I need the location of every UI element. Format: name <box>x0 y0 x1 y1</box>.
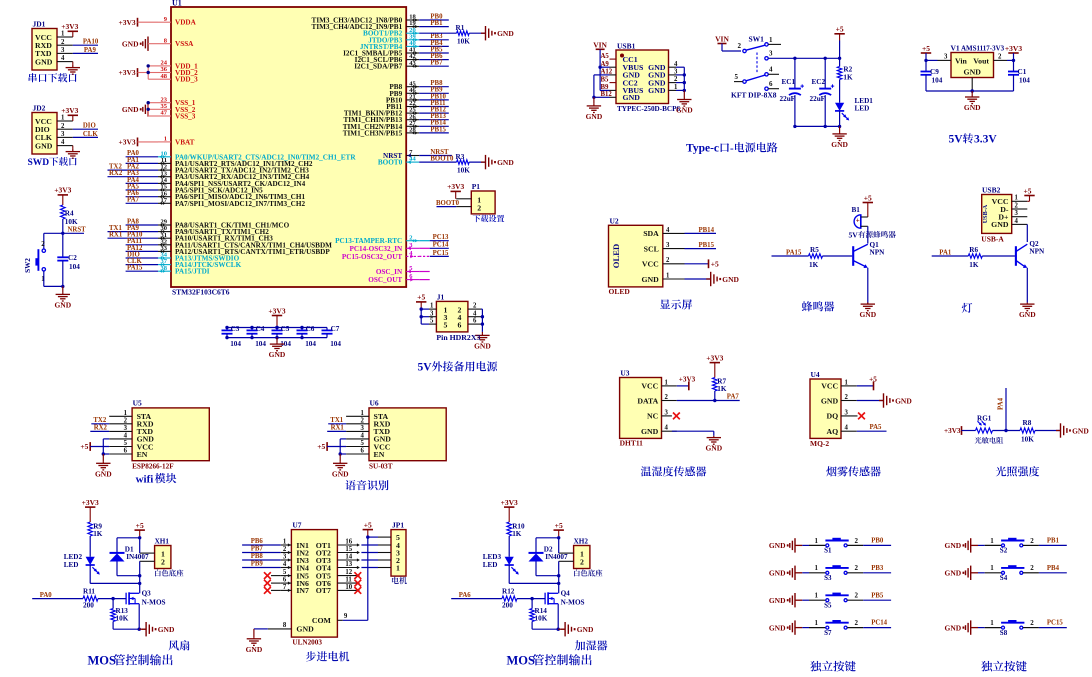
svg-text:+5: +5 <box>555 521 563 530</box>
svg-text:3: 3 <box>665 409 669 416</box>
svg-text:MOS: MOS <box>88 653 117 667</box>
svg-text:SCL: SCL <box>644 244 659 253</box>
svg-text:GND: GND <box>474 341 491 350</box>
U1 pin 29 PA8 <box>158 219 290 230</box>
svg-text:PA15: PA15 <box>786 249 802 256</box>
wire / net label CLK <box>126 258 158 265</box>
svg-text:B5: B5 <box>601 76 610 83</box>
svg-text:U3: U3 <box>620 369 629 378</box>
svg-text:C2: C2 <box>68 254 77 262</box>
svg-text:4: 4 <box>769 66 773 74</box>
wire / net label PA8 <box>126 218 158 225</box>
ground GND at J1 <box>474 309 491 350</box>
LED LED1 <box>835 80 873 127</box>
svg-text:2: 2 <box>1030 564 1034 572</box>
resistor R5 1K <box>809 246 853 269</box>
svg-text:47: 47 <box>161 110 168 117</box>
svg-text:GND: GND <box>1072 426 1089 435</box>
connector USB2 USB-A <box>981 186 1027 244</box>
key switch S4 / net PB4 <box>945 564 1067 582</box>
resistor R4 10K <box>61 205 78 226</box>
svg-text:3: 3 <box>361 425 365 432</box>
svg-text:IN7: IN7 <box>296 586 309 595</box>
svg-text:1: 1 <box>396 564 400 573</box>
svg-text:BOOT0: BOOT0 <box>378 159 403 167</box>
svg-text:NPN: NPN <box>870 249 886 257</box>
wire / net label DIO (JD2) <box>73 123 98 130</box>
resistor R12 200 <box>502 587 545 609</box>
svg-text:1: 1 <box>769 36 773 44</box>
ground GND at U7 pin8 <box>246 629 268 654</box>
capacitor C1 104 <box>1008 60 1030 91</box>
IC U1 STM32F103C6T6 body <box>171 0 406 297</box>
svg-text:1: 1 <box>124 410 128 417</box>
svg-text:VCC: VCC <box>641 382 658 391</box>
svg-text:V1: V1 <box>951 44 960 53</box>
svg-text:GND: GND <box>641 275 659 284</box>
svg-text:1K: 1K <box>843 73 853 81</box>
wire cap bank rails <box>225 326 327 340</box>
U1 pin 17 PA7 <box>158 197 305 208</box>
ground GND power circuit <box>831 126 848 148</box>
svg-text:COM: COM <box>312 616 332 625</box>
svg-text:2: 2 <box>1030 619 1034 627</box>
svg-text:PC15: PC15 <box>1047 620 1063 627</box>
caption 步进电机 <box>306 651 349 661</box>
key switch S1 / net PB0 <box>769 537 891 555</box>
svg-text:STM32F103C6T6: STM32F103C6T6 <box>172 288 230 297</box>
svg-text:EC2: EC2 <box>812 78 826 86</box>
wire GND+EN tie (U6) <box>339 439 347 456</box>
svg-text:GND: GND <box>296 625 314 634</box>
svg-text:DHT11: DHT11 <box>620 439 644 448</box>
wire USB2 GND to Q2 collector <box>1026 224 1028 242</box>
ground GND USB1 left <box>586 104 603 121</box>
wire / net label PB15 <box>419 126 449 133</box>
ground GND USB1 right <box>676 98 693 115</box>
wire / net label PB6 <box>419 53 449 60</box>
power +5 (U5) <box>80 442 109 451</box>
svg-text:NRST: NRST <box>68 227 87 234</box>
svg-text:GND: GND <box>676 106 693 115</box>
U1 pin 10 PA0 <box>158 150 356 161</box>
svg-text:1: 1 <box>283 539 287 546</box>
U1 pin 4 PC15-OSC32_OUT <box>342 250 419 261</box>
U1 pin 5 OSC_IN <box>376 265 430 276</box>
wire / net label PA15 <box>126 265 158 272</box>
capacitor C6 104 <box>297 325 317 348</box>
svg-text:R5: R5 <box>810 246 819 254</box>
svg-text:4: 4 <box>61 139 65 146</box>
svg-text:PB6: PB6 <box>251 538 264 545</box>
svg-text:2: 2 <box>665 394 669 401</box>
svg-text:4: 4 <box>665 425 669 432</box>
caption MOS管控制输出 <box>507 653 592 667</box>
svg-text:1: 1 <box>815 564 819 572</box>
U1 pin 37 PA14 <box>158 258 242 269</box>
svg-text:+3V3: +3V3 <box>118 18 135 27</box>
power VIN at SW1 <box>715 35 741 52</box>
svg-text:IN4007: IN4007 <box>126 553 149 561</box>
svg-text:ESP8266-12F: ESP8266-12F <box>132 463 174 471</box>
svg-text:+5: +5 <box>417 293 425 302</box>
U1 pin 23 VSS_1 <box>158 96 196 107</box>
LED LED3 <box>483 536 561 585</box>
transistor Q2 NPN <box>1016 240 1045 268</box>
caption 蜂鸣器 <box>802 301 834 311</box>
caption 5V外接备用电源 <box>418 361 498 373</box>
wire to switch SW2 <box>44 233 63 249</box>
power +3V3 at R7 <box>706 353 723 377</box>
svg-text:2: 2 <box>1015 202 1019 209</box>
ground GND DHT11 <box>705 436 722 453</box>
svg-text:48: 48 <box>161 73 168 80</box>
wire node to R8 <box>993 429 1021 432</box>
svg-text:CLK: CLK <box>83 131 98 138</box>
ground GND lamp <box>1019 303 1036 320</box>
svg-text:I2C1_SDA/PB7: I2C1_SDA/PB7 <box>354 63 402 71</box>
svg-text:+3V3: +3V3 <box>54 186 71 195</box>
svg-text:3: 3 <box>430 310 434 317</box>
wire / net label PB14 (OLED SDA) <box>685 227 717 234</box>
svg-text:3: 3 <box>1015 210 1019 217</box>
wire USB1 right bus to ground <box>676 67 686 97</box>
capacitor C3 104 <box>222 325 242 348</box>
U1 pin 45 PB8 <box>389 80 419 91</box>
svg-text:104: 104 <box>230 340 241 348</box>
svg-text:PA0: PA0 <box>40 592 53 599</box>
wire / net label PC14 <box>419 242 449 249</box>
key switch S2 / net PB1 <box>945 537 1067 555</box>
U1 pin 39 JTDO/PB3 <box>368 33 419 44</box>
svg-text:VCC: VCC <box>642 260 659 269</box>
power VIN at USB1 <box>593 40 609 90</box>
svg-text:7: 7 <box>283 584 287 591</box>
connector USB1 TYPE-C-250D-BCP6 <box>601 41 681 113</box>
svg-text:R2: R2 <box>843 65 852 73</box>
wire / net label PB15 (OLED SCL) <box>685 242 717 249</box>
resistor R1 10K with ground on PB2 <box>419 24 514 45</box>
svg-text:1K: 1K <box>93 530 103 538</box>
svg-text:USB1: USB1 <box>617 41 636 50</box>
resistor R14 10K <box>530 599 558 630</box>
no-connect X at MQ-2 DQ <box>858 413 865 420</box>
svg-text:S3: S3 <box>824 574 832 582</box>
wire / net label PA4 <box>126 177 158 184</box>
svg-text:8: 8 <box>283 622 287 629</box>
svg-text:10K: 10K <box>457 38 470 46</box>
U1 pin 34 PA13 <box>158 252 240 263</box>
resistor R9 1K <box>88 522 103 538</box>
svg-text:PA10: PA10 <box>83 39 99 46</box>
wire / net label RX2 <box>90 425 109 432</box>
svg-text:VIN: VIN <box>593 40 607 49</box>
svg-text:10K: 10K <box>116 615 129 623</box>
svg-text:3: 3 <box>666 242 670 249</box>
power +5 at U7/JP1 <box>363 520 378 538</box>
U1 pin 25 TIM1_BKIN/PB12 <box>344 107 419 118</box>
svg-text:1: 1 <box>430 303 434 310</box>
ground GND at VSSA <box>122 37 158 51</box>
svg-text:3: 3 <box>283 554 287 561</box>
svg-text:PB4: PB4 <box>1047 565 1060 572</box>
svg-text:EN: EN <box>137 450 148 459</box>
resistor R3 10K with ground on BOOT0 <box>419 153 514 174</box>
U1 pin 36 VDD_2 <box>158 66 198 77</box>
svg-text:10: 10 <box>345 584 352 591</box>
svg-text:GND: GND <box>945 541 962 550</box>
wire / net label PB3 <box>419 33 449 40</box>
resistor R7 1K pullup <box>713 377 727 402</box>
caption Type-c口-电源电路 <box>686 142 777 154</box>
U1 pin 30 PA9 <box>158 225 269 236</box>
caption 下载设置 <box>473 215 505 222</box>
svg-text:C5: C5 <box>281 325 290 333</box>
power +3V3 reset circuit <box>54 186 71 205</box>
svg-text:S1: S1 <box>824 547 832 555</box>
wire / net label PA4 vertical <box>998 388 1007 431</box>
power +3V3 at VBAT <box>118 138 158 147</box>
svg-text:2: 2 <box>283 546 287 553</box>
svg-text:GND: GND <box>641 427 659 436</box>
svg-text:GND: GND <box>497 29 514 38</box>
svg-text:4: 4 <box>361 433 365 440</box>
power +5 at USB2 <box>1023 186 1034 201</box>
svg-text:2: 2 <box>666 257 670 264</box>
U1 pin 8 VSSA <box>158 37 194 48</box>
svg-text:SWD: SWD <box>28 158 50 168</box>
svg-text:2: 2 <box>580 557 584 566</box>
caption 5V转3.3V <box>949 133 998 145</box>
svg-text:+5: +5 <box>711 259 719 268</box>
U1 pin 14 PA4 <box>158 177 306 188</box>
svg-text:GND: GND <box>859 310 876 319</box>
svg-text:6: 6 <box>361 448 365 455</box>
U1 pin 26 TIM1_CHIN/PB13 <box>343 113 419 124</box>
U1 pin 31 PA10 <box>158 232 273 243</box>
no-connect X at U7 output <box>354 580 361 587</box>
wire / net label PA10 RX1 <box>108 232 159 239</box>
svg-text:R8: R8 <box>1023 419 1032 427</box>
caption 灯 <box>962 303 972 313</box>
wire / net label PB12 <box>419 107 449 114</box>
svg-text:+5: +5 <box>80 442 88 451</box>
svg-text:2: 2 <box>845 394 849 401</box>
U1 pin 42 I2C1_SCL/PB6 <box>355 53 420 64</box>
svg-text:+3V3: +3V3 <box>268 306 285 315</box>
svg-text:GND: GND <box>722 275 739 284</box>
no-connect X at U7 output <box>354 587 361 594</box>
svg-text:wifi: wifi <box>136 473 154 485</box>
svg-text:RG1: RG1 <box>977 414 992 422</box>
wire U7 output to JP1 <box>361 552 378 554</box>
svg-text:R12: R12 <box>502 587 515 595</box>
svg-text:6: 6 <box>473 318 477 325</box>
svg-text:6: 6 <box>124 448 128 455</box>
svg-text:10K: 10K <box>1021 435 1034 443</box>
wire / net label PA7 (DHT11 DATA) <box>677 393 740 400</box>
svg-text:U4: U4 <box>811 370 820 379</box>
wire / net label PA2 TX2 <box>108 164 159 171</box>
svg-text:C4: C4 <box>256 325 265 333</box>
svg-text:GND: GND <box>35 57 53 66</box>
wire GND+EN tie (U5) <box>102 439 110 456</box>
svg-text:5: 5 <box>430 318 434 325</box>
wire / net label PA15 (buzzer) <box>772 249 809 256</box>
svg-text:Type-c: Type-c <box>686 143 719 155</box>
svg-text:JD2: JD2 <box>33 104 46 113</box>
svg-text:PA9: PA9 <box>84 47 97 54</box>
no-connect X at DHT11 NC <box>673 413 680 420</box>
wire drain (Q3) <box>139 576 141 594</box>
transistor Q3 N-MOS <box>126 590 165 607</box>
caption 串口下载口 <box>29 73 77 82</box>
ground GND (U5) <box>95 454 112 478</box>
svg-text:PB9: PB9 <box>251 561 264 568</box>
svg-text:PB8: PB8 <box>251 553 264 560</box>
resistor R11 200 <box>83 587 126 609</box>
wire / net label PB0 <box>419 13 449 20</box>
U1 pin 24 VDD_1 <box>158 60 198 71</box>
caption wifi模块 <box>136 473 177 485</box>
svg-text:+3V3: +3V3 <box>1005 44 1022 53</box>
wire / net label PB9 <box>419 87 449 94</box>
wire / net label PB7 (U7 IN2) <box>242 546 281 553</box>
svg-text:GND: GND <box>158 625 175 634</box>
svg-text:4: 4 <box>283 561 287 568</box>
U1 pin 3 PC14-OSC32_IN <box>349 242 419 253</box>
svg-text:NC: NC <box>647 412 659 421</box>
svg-text:GND: GND <box>623 93 641 102</box>
svg-text:BOOT0: BOOT0 <box>430 156 454 163</box>
svg-text:PC14-OSC32_IN: PC14-OSC32_IN <box>349 245 403 253</box>
svg-text:+5: +5 <box>922 44 930 53</box>
svg-text:1: 1 <box>990 564 994 572</box>
svg-text:1: 1 <box>815 619 819 627</box>
no-connect X at U7 output <box>354 572 361 579</box>
svg-text:5: 5 <box>283 569 287 576</box>
wire / net label PC13 <box>419 234 449 241</box>
svg-text:104: 104 <box>330 340 341 348</box>
svg-text:GND: GND <box>769 541 786 550</box>
power +3V3 (R10) <box>501 498 518 522</box>
svg-text:TIM1_CH3N/PB15: TIM1_CH3N/PB15 <box>343 129 403 137</box>
power +3V3 light sensor <box>944 426 975 435</box>
svg-text:N-MOS: N-MOS <box>142 599 166 607</box>
svg-text:GND: GND <box>769 623 786 632</box>
caption 独立按键 left <box>810 661 856 672</box>
diode D2 IN4007 <box>529 538 568 578</box>
svg-text:104: 104 <box>305 340 316 348</box>
wire / net label PA11 <box>126 238 158 245</box>
power +5 at J1 <box>416 293 429 324</box>
svg-text:RX2: RX2 <box>109 170 123 177</box>
U1 pin 13 PA3 <box>158 170 310 181</box>
svg-text:PC14: PC14 <box>871 620 887 627</box>
wire source to ground (Q4) <box>557 604 566 631</box>
IC U6 SU-03T <box>346 399 446 471</box>
svg-text:13: 13 <box>345 561 352 568</box>
svg-text:1K: 1K <box>809 261 819 269</box>
label 5V有源蜂鸣器 <box>849 230 896 239</box>
wire bottom rail power circuit <box>793 125 841 128</box>
diode D1 IN4007 <box>110 538 149 578</box>
svg-text:A5: A5 <box>601 53 610 60</box>
svg-text:OLED: OLED <box>611 244 621 268</box>
svg-text:N-MOS: N-MOS <box>561 599 585 607</box>
svg-text:PB15: PB15 <box>430 126 446 133</box>
svg-text:22uF: 22uF <box>810 95 826 103</box>
key switch S7 / net PC14 <box>769 619 891 637</box>
svg-text:C6: C6 <box>306 325 315 333</box>
wire / net label NRST <box>419 149 452 156</box>
U1 pin 33 PA12 <box>158 245 330 256</box>
svg-text:+3V3: +3V3 <box>118 68 135 77</box>
svg-text:1K: 1K <box>969 261 979 269</box>
power +5 (U6) <box>317 442 346 451</box>
svg-text:2: 2 <box>738 42 742 50</box>
capacitor C4 104 <box>247 325 267 348</box>
svg-text:2: 2 <box>409 234 412 241</box>
svg-text:Vout: Vout <box>973 57 989 66</box>
svg-text:VSS_3: VSS_3 <box>175 113 196 121</box>
svg-text:4: 4 <box>473 310 477 317</box>
wire / net label PA1 <box>126 157 158 164</box>
svg-text:3: 3 <box>124 425 128 432</box>
svg-text:R3: R3 <box>456 153 465 161</box>
key switch S5 / net PB5 <box>769 592 891 610</box>
key switch S8 / net PC15 <box>945 619 1067 637</box>
wire / net label PA10 (JD1) <box>73 39 99 46</box>
U1 pin 28 TIM1_CH3N/PB15 <box>343 127 420 138</box>
svg-text:R11: R11 <box>83 587 95 595</box>
svg-text:MQ-2: MQ-2 <box>810 439 829 448</box>
svg-text:C1: C1 <box>1018 68 1027 76</box>
svg-text:SW2: SW2 <box>24 258 32 273</box>
U1 pin 11 PA1 <box>158 157 313 168</box>
ground GND buzzer <box>859 303 876 320</box>
svg-text:11: 11 <box>345 577 352 584</box>
svg-text:GND: GND <box>35 141 53 150</box>
svg-text:OT7: OT7 <box>316 586 331 595</box>
power +5 (XH2) <box>554 521 564 540</box>
caption 风扇 <box>169 640 190 650</box>
U1 pin 16 PA6 <box>158 190 305 201</box>
U1 pin 15 PA5 <box>158 184 263 195</box>
capacitor C5 104 <box>272 325 292 348</box>
resistor R13 10K <box>111 599 139 630</box>
caption SWD下载口 <box>28 157 77 168</box>
svg-text:TYPEC-250D-BCP6: TYPEC-250D-BCP6 <box>617 105 680 113</box>
svg-text:JP1: JP1 <box>392 520 404 529</box>
svg-text:10K: 10K <box>457 167 470 175</box>
svg-text:PB14: PB14 <box>699 227 715 234</box>
svg-text:PA7: PA7 <box>127 197 140 204</box>
wire / net label TX1 <box>328 417 346 424</box>
svg-text:1: 1 <box>666 272 670 279</box>
U1 pin 40 JNTRST/PB4 <box>360 40 419 51</box>
svg-text:+5: +5 <box>364 520 372 529</box>
ground GND (Q4) <box>561 622 594 636</box>
svg-text:+5: +5 <box>869 375 877 383</box>
no-connect X at U7 input <box>264 587 281 594</box>
connector XH2 white socket <box>559 538 603 577</box>
U1 pin 22 PB11 <box>386 100 419 111</box>
wire / net label PB8 <box>419 80 449 87</box>
ground at OLED GND <box>685 272 740 286</box>
U1 pin 35 VSS_2 <box>158 103 196 114</box>
power +3V3 at VDD_1..3 with bus <box>118 64 158 79</box>
